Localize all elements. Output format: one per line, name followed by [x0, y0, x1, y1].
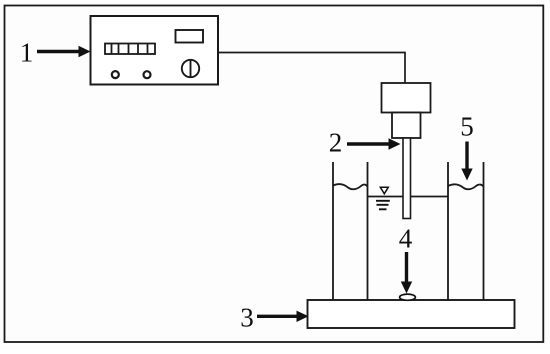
knob — [182, 60, 199, 77]
right inner tank wall — [447, 162, 449, 300]
button circles — [112, 71, 119, 78]
wire from box to transducer — [218, 53, 405, 84]
arrow to probe — [347, 138, 401, 149]
left inner tank wall — [367, 162, 369, 300]
svg-text:1: 1 — [20, 38, 34, 68]
arrow to instrument box — [37, 46, 91, 57]
transducer housing upper block — [382, 83, 431, 113]
water level hatch lines — [376, 201, 390, 210]
instrument box (ultrasonic generator) — [91, 16, 219, 85]
svg-text:2: 2 — [329, 128, 343, 158]
water level triangle symbol — [380, 187, 388, 194]
right jacket water wave — [448, 184, 484, 189]
svg-text:4: 4 — [399, 224, 413, 254]
sample ellipse on base — [400, 294, 416, 300]
probe rod — [403, 138, 411, 219]
arrow to sample — [401, 252, 412, 294]
transducer neck block — [392, 113, 421, 139]
svg-text:5: 5 — [460, 112, 474, 142]
svg-text:3: 3 — [240, 303, 254, 333]
inner bath water surface line — [368, 196, 449, 198]
base platform — [308, 300, 515, 328]
segmented scale bar — [105, 44, 155, 55]
arrow to base — [257, 311, 309, 322]
arrow into jacket — [461, 142, 472, 181]
display window — [176, 30, 204, 43]
left jacket water wave — [333, 184, 368, 189]
left outer tank wall — [332, 162, 334, 300]
right outer tank wall — [483, 162, 485, 300]
